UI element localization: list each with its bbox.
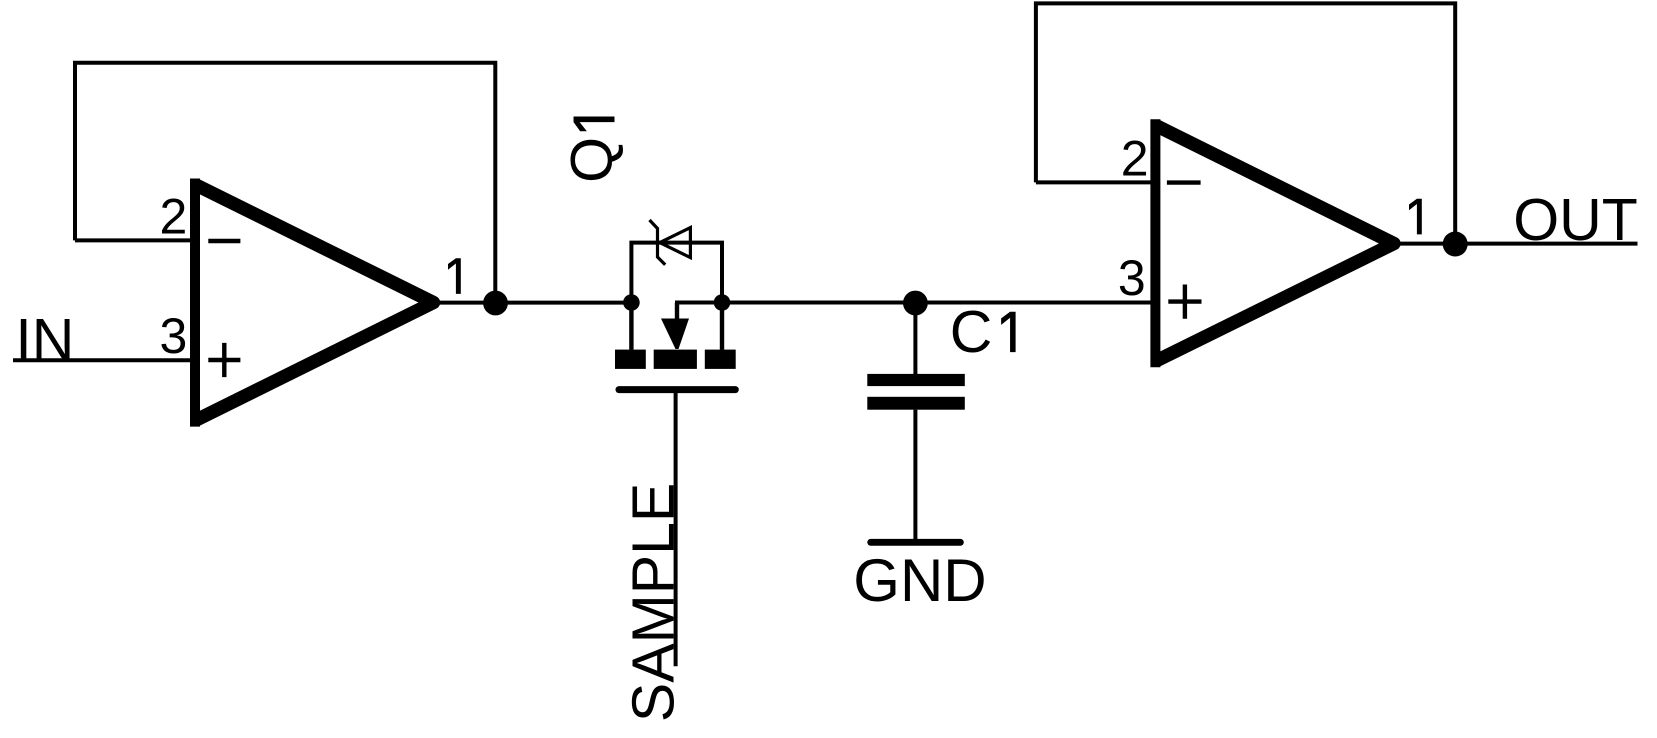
op-amp U2 inverting input marker - [1167,180,1201,184]
wire IN to U1 pin 3 [13,358,195,362]
svg-text:OUT: OUT [1513,187,1638,253]
transistor Q1 left contact [615,350,646,369]
transistor Q1 body arrow [661,319,689,350]
wire U1 feedback loop pin1 to pin2 [75,63,495,303]
svg-text:C: C [950,299,993,365]
capacitor C1 bottom plate [867,397,965,410]
svg-text:GND: GND [853,547,986,614]
transistor Q1 gate bar [619,386,735,393]
transistor Q1 right terminal leg [720,303,724,350]
wire capacitor to ground [913,410,917,539]
transistor Q1 body diode bottom tick [658,257,666,265]
ground symbol [871,539,961,546]
svg-text:Q: Q [559,137,625,183]
wire U2 feedback loop pin1 to pin2 [1036,3,1455,243]
wire C1 node to capacitor [913,303,917,374]
junction C1 node [903,291,928,316]
op-amp U1 inverting input marker - [208,239,240,243]
wire Q1 to C1 node to U2 pin 3 [677,303,1155,319]
junction Q1 right terminal [714,294,731,311]
pin 1 label U2 [1409,199,1422,235]
op-amp U1 triangle [195,179,434,427]
junction U2 output node [1443,232,1468,257]
svg-text:3: 3 [159,308,187,364]
transistor Q1 body diode bar (zener) [656,228,659,259]
svg-text:IN: IN [15,307,74,373]
op-amp U1 non-inverting input marker + [208,343,240,377]
transistor Q1 body diode top tick [650,220,658,229]
svg-text:2: 2 [159,189,187,245]
transistor Q1 right contact [705,350,736,369]
pin 1 label U1 [448,258,461,294]
junction U1 output node [483,291,508,316]
label Q1 [559,116,625,182]
op-amp U2 non-inverting input marker + [1168,285,1201,319]
transistor Q1 middle contact [654,350,697,369]
wire U2 output to OUT [1394,242,1638,246]
transistor Q1 top loop wire [631,243,722,303]
transistor Q1 body diode triangle [660,228,691,258]
wire U2 pin2 stub [1036,180,1156,184]
wire Q1 gate to SAMPLE [674,393,678,666]
wire U1 output to Q1 [434,301,632,305]
junction Q1 left terminal [623,294,640,311]
svg-text:2: 2 [1121,131,1149,187]
svg-text:3: 3 [1118,250,1146,306]
svg-text:SAMPLE: SAMPLE [620,483,686,722]
wire U1 pin2 stub [75,238,195,242]
op-amp U2 triangle [1155,119,1394,367]
capacitor C1 top plate [867,374,965,386]
net label SAMPLE [620,483,686,722]
transistor Q1 body stub wire [675,303,679,319]
transistor Q1 left terminal leg [629,303,633,350]
